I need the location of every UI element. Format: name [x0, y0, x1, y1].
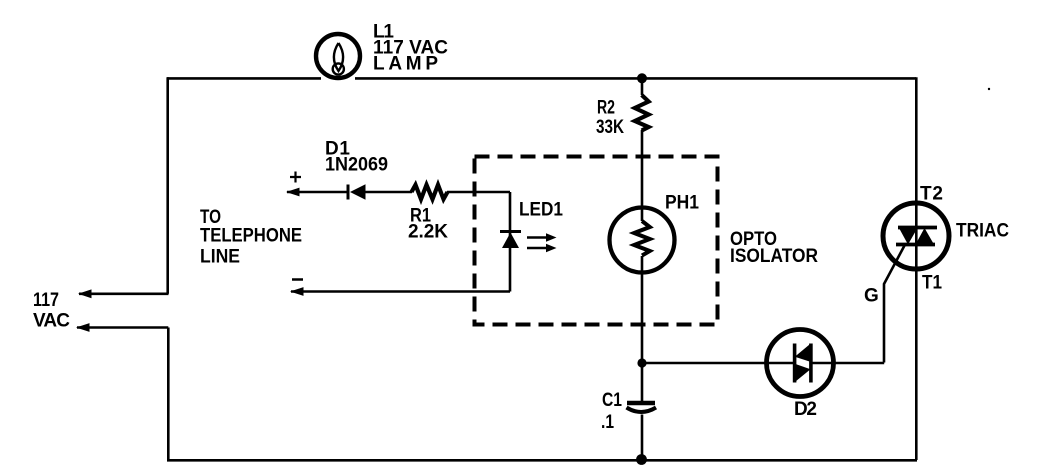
svg-text:.1: .1 — [601, 412, 614, 433]
svg-text:117: 117 — [33, 290, 59, 311]
svg-text:D2: D2 — [794, 399, 817, 420]
svg-text:LINE: LINE — [200, 247, 240, 268]
svg-text:R2: R2 — [597, 98, 615, 119]
svg-text:LAMP: LAMP — [373, 54, 438, 75]
svg-text:LED1: LED1 — [519, 200, 563, 221]
svg-text:VAC: VAC — [33, 311, 70, 332]
svg-text:TELEPHONE: TELEPHONE — [200, 226, 302, 247]
svg-text:1N2069: 1N2069 — [325, 155, 388, 176]
svg-text:T2: T2 — [920, 184, 943, 205]
svg-text:TRIAC: TRIAC — [956, 221, 1009, 242]
svg-text:T1: T1 — [922, 273, 942, 294]
svg-text:PH1: PH1 — [665, 193, 699, 214]
svg-text:ISOLATOR: ISOLATOR — [730, 246, 818, 267]
svg-text:G: G — [864, 286, 879, 307]
svg-text:2.2K: 2.2K — [408, 222, 448, 243]
svg-text:C1: C1 — [602, 390, 622, 411]
svg-text:33K: 33K — [596, 117, 624, 138]
